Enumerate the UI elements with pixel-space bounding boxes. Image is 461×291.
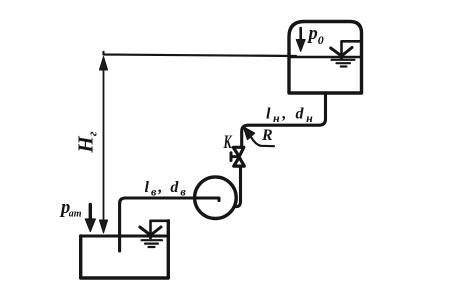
upper level mark V <box>331 48 352 59</box>
discharge pipe upper segment (tank to valve) <box>242 93 326 148</box>
lower level mark hatches <box>142 240 163 247</box>
dimension Hg top arrowhead <box>99 57 107 71</box>
dimension Hg bottom arrowhead <box>99 220 107 233</box>
svg-text:R: R <box>261 127 273 144</box>
valve stem and T-bar <box>231 153 238 161</box>
dimension Hg vertical line <box>103 68 105 222</box>
valve K (bowtie with stem) <box>233 147 244 166</box>
leader arrow R (points to pipe corner) <box>249 134 274 147</box>
svg-text:К: К <box>223 133 233 153</box>
dimension Hg reference line (to upper tank level) <box>104 52 297 56</box>
upper tank liquid level line <box>289 56 361 59</box>
lower level mark flag <box>151 221 169 236</box>
lower tank (open reservoir) <box>81 221 169 278</box>
discharge pipe lower segment (valve to pump) <box>236 166 241 207</box>
pump (circle) <box>195 177 237 219</box>
suction pipe (tank A to pump centre) <box>120 198 219 251</box>
upper level mark flag <box>342 41 362 56</box>
lower tank rim / water line <box>81 235 168 238</box>
pressure arrow p_at <box>89 205 92 223</box>
upper level mark hatches <box>332 60 355 67</box>
pressure arrow p0 <box>299 28 302 42</box>
upper tank (closed pressure tank) <box>289 22 362 94</box>
lower level mark V <box>140 227 161 238</box>
